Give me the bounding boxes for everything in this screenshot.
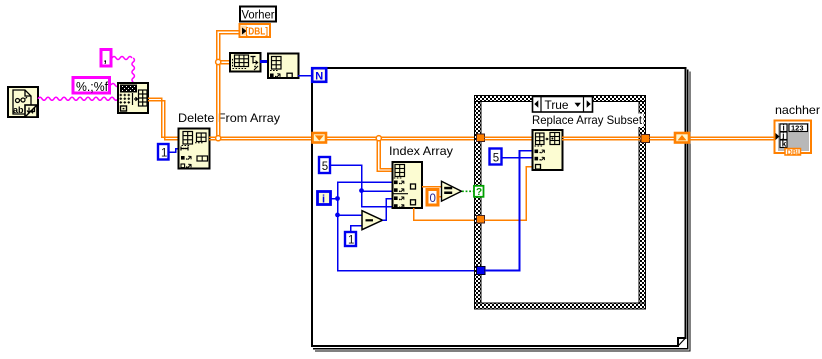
svg-text:ab: ab <box>13 105 24 115</box>
svg-text:,: , <box>103 49 107 66</box>
svg-text:?: ? <box>476 187 482 198</box>
junction (379,137.5) <box>376 136 381 141</box>
wire element2 down to case tunnel <box>414 208 478 220</box>
wire 1 to subtract <box>351 226 362 232</box>
wire Replace out to case right tunnel <box>562 137 642 140</box>
junction (217.5,137.5) <box>216 136 221 141</box>
junction dot (337.5,198.5) <box>335 196 340 201</box>
svg-text:1: 1 <box>348 235 354 247</box>
indicator Vorher DBL array terminal <box>240 24 271 38</box>
constant 5 (column) <box>319 157 330 173</box>
wire row count to N <box>298 75 312 77</box>
svg-text:123: 123 <box>791 124 804 133</box>
constant 0 <box>427 190 438 206</box>
wire row index inside case <box>485 151 533 271</box>
junction dot (337.5,214.9) <box>335 213 340 218</box>
case selector label True <box>533 97 593 113</box>
wire 2D array node to Delete From Array <box>148 98 178 140</box>
tunnel case row index in <box>477 267 486 275</box>
tunnel loop input (auto-index) <box>313 133 327 143</box>
constant comma string <box>101 49 111 66</box>
junction (217.5,62) <box>216 59 221 64</box>
wire comma to node <box>112 57 132 60</box>
svg-text:DBL: DBL <box>787 149 802 156</box>
constant 1 (row index) <box>158 144 169 160</box>
wire sizes array to Index Array <box>260 60 268 63</box>
constant format string %.;%f <box>73 78 110 95</box>
constant 1 (decrement) <box>345 232 356 247</box>
tunnel case array in <box>477 134 485 142</box>
constant 5 (column, in case) <box>490 149 502 165</box>
wire branch up to Vorher / Array Size <box>217 31 240 139</box>
wire 0 to equals <box>439 196 442 198</box>
wire boolean to case selector <box>462 190 474 192</box>
op equal? <box>442 181 462 201</box>
label Replace Array Subset <box>531 114 644 128</box>
tunnel loop output <box>675 133 689 143</box>
wire branch down into Index Array <box>377 138 393 171</box>
svg-text:1: 1 <box>161 148 167 160</box>
wire string from file to node <box>38 97 118 100</box>
wire 5 to Replace col input <box>502 157 534 159</box>
svg-text:Replace Array Subset: Replace Array Subset <box>532 113 643 127</box>
svg-text:[DBL]: [DBL] <box>246 27 269 38</box>
node Index Array (scalar, gets row count) <box>268 54 299 79</box>
node Index Array (expanded, two elements) <box>393 162 423 208</box>
svg-text:5: 5 <box>493 152 499 164</box>
terminal i (iteration) <box>318 192 331 206</box>
wire main run inside loop to case tunnel <box>327 137 477 140</box>
svg-text:True: True <box>545 98 569 112</box>
node Replace Array Subset <box>533 130 563 170</box>
svg-text:k: k <box>782 140 787 149</box>
tunnel case selector ? <box>474 186 484 198</box>
wire subtract out to row2 input <box>383 199 393 221</box>
wire format to node <box>111 84 119 87</box>
svg-text:N: N <box>315 70 323 82</box>
svg-text:Delete From Array: Delete From Array <box>178 111 280 125</box>
case structure border (checkered) <box>475 96 646 310</box>
node Read From Text File <box>8 87 38 117</box>
wire main 2D array run: Delete output to loop tunnel <box>209 137 312 140</box>
svg-text:Index Array: Index Array <box>389 144 453 158</box>
svg-text:j: j <box>781 131 784 140</box>
for loop frame <box>312 68 686 346</box>
svg-text:5: 5 <box>322 161 328 173</box>
svg-text:%.;%f: %.;%f <box>76 79 108 94</box>
wire case tunnel to Replace node <box>485 137 534 140</box>
node Delete From Array <box>179 129 210 169</box>
op subtract <box>362 211 383 230</box>
node Spreadsheet String To Array <box>118 83 148 113</box>
wire value inside case <box>485 167 534 220</box>
wire 5 to index (col) inputs <box>330 165 392 207</box>
svg-text:i: i <box>322 193 325 205</box>
indicator nachher (2D DBL array) <box>775 121 812 157</box>
wire case to loop tunnel <box>650 137 676 140</box>
tunnel case array out <box>641 135 650 143</box>
label Vorher <box>240 7 276 22</box>
junction dot (361.5,190.6) <box>359 188 364 193</box>
wire 1 to Delete From Array <box>169 149 179 153</box>
wire loop to nachher indicator <box>690 137 775 140</box>
tunnel case value in <box>477 216 485 224</box>
wire element1 to equals <box>422 186 442 188</box>
terminal N (loop count) <box>312 68 326 82</box>
svg-text:nachher: nachher <box>775 103 820 117</box>
wire i to row input and subtract <box>331 198 338 200</box>
node Array Size <box>230 53 261 72</box>
svg-text:0: 0 <box>430 193 436 205</box>
svg-text:Vorher: Vorher <box>242 10 275 22</box>
